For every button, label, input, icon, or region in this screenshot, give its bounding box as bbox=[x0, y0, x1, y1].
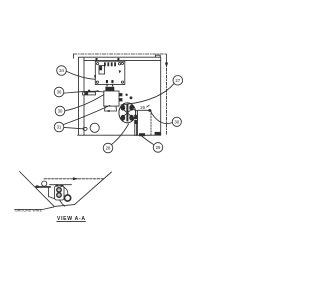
wire below switch bbox=[60, 200, 65, 206]
contactor cap bbox=[105, 87, 114, 91]
board screw top-left bbox=[97, 63, 99, 65]
label leader bottom view bbox=[15, 207, 54, 210]
grommet oval on flange bbox=[83, 127, 87, 130]
phantom section line top bbox=[74, 53, 167, 55]
plug hatch lines bbox=[121, 107, 135, 119]
wire dot A bbox=[125, 94, 127, 96]
ledge vertical bbox=[48, 188, 54, 199]
back line arrow bbox=[73, 177, 79, 180]
board screw bottom-left bbox=[96, 81, 98, 83]
leader 34 bbox=[66, 71, 95, 79]
board bottom marks bbox=[106, 80, 108, 83]
contactor skirt tick bbox=[108, 110, 110, 112]
board relay dark part bbox=[100, 66, 103, 70]
svg-text:29: 29 bbox=[156, 145, 161, 150]
callout 27 bbox=[173, 76, 183, 86]
bracket top edge bbox=[50, 184, 72, 186]
leader 30 right bbox=[151, 112, 173, 124]
capacitor bottom blob bbox=[139, 133, 145, 136]
board screw top-right bbox=[121, 62, 123, 64]
circuit board U1 bbox=[95, 61, 125, 84]
phantom line right vertical bbox=[166, 68, 168, 135]
callout 29 bbox=[153, 143, 163, 153]
standoff mark left above board bbox=[96, 58, 98, 61]
contactor K1 bbox=[104, 91, 119, 106]
callout 34 bbox=[57, 66, 67, 76]
contactor skirt bbox=[105, 106, 117, 111]
terminal strip TB1 bbox=[83, 92, 96, 95]
switch top tick left bbox=[55, 184, 58, 186]
svg-text:27: 27 bbox=[175, 78, 180, 83]
switch body S1 bbox=[55, 186, 64, 200]
basepan right diagonal bbox=[75, 172, 112, 205]
leader 30 left bbox=[65, 95, 104, 111]
basepan back dashed line bbox=[44, 178, 104, 180]
capacitor left terminal upper bbox=[134, 115, 137, 119]
leader 31 short bbox=[64, 127, 83, 128]
svg-text:30: 30 bbox=[174, 119, 179, 124]
switch eye lower bbox=[57, 193, 61, 197]
box inner top line bbox=[84, 60, 161, 62]
wire dot B bbox=[130, 96, 133, 99]
callout 30 left bbox=[55, 106, 65, 116]
svg-text:36: 36 bbox=[57, 90, 62, 95]
leader 28 bbox=[111, 124, 128, 145]
terminal strip dark blob bbox=[84, 92, 88, 94]
box top-right tab bbox=[156, 55, 161, 57]
leader 31 long arc bbox=[64, 105, 110, 124]
callout 36 bbox=[54, 87, 64, 97]
leader 29 bbox=[142, 136, 154, 145]
contactor terminal upper bbox=[119, 93, 122, 96]
capacitor C1 bbox=[138, 110, 152, 135]
plug outline re-stroke bbox=[119, 103, 136, 123]
svg-text:31: 31 bbox=[57, 125, 62, 130]
ticks below board bbox=[106, 85, 107, 87]
standoff mark right above board bbox=[117, 58, 119, 61]
terminal strip screw head bbox=[88, 90, 91, 92]
box left flange inner line bbox=[83, 58, 85, 135]
board top component row bbox=[104, 62, 116, 66]
bottom-right corner blob bbox=[155, 132, 161, 136]
board relay outline bbox=[99, 66, 105, 74]
board left edge blob bbox=[94, 75, 96, 78]
ledge lines bbox=[36, 186, 51, 187]
wires left of capacitor bbox=[135, 124, 137, 135]
ledge dark tick bbox=[36, 185, 39, 187]
phantom corner tick left bbox=[73, 54, 75, 58]
compressor plug (hatched) P1 bbox=[119, 103, 136, 123]
callout 31 bbox=[54, 122, 64, 132]
VIEW A-A : basepan left diagonal bbox=[20, 172, 55, 207]
callout 30 right bbox=[172, 117, 181, 126]
board arrow mark bbox=[119, 70, 122, 73]
svg-text:26: 26 bbox=[140, 105, 145, 110]
leader 36 bbox=[64, 91, 104, 93]
svg-text:30: 30 bbox=[58, 109, 63, 114]
hole bottom-left bbox=[90, 123, 99, 132]
wire from switch to grommet bbox=[64, 187, 68, 195]
switch eye upper bbox=[57, 188, 61, 192]
svg-text:GROUND WIRE: GROUND WIRE bbox=[15, 208, 43, 212]
label 26 arrow tick bbox=[147, 105, 149, 107]
board small circle right of row bbox=[118, 63, 120, 65]
switch top tick right bbox=[60, 185, 63, 187]
board screw bottom-right bbox=[121, 81, 123, 83]
grommet ring bbox=[65, 195, 71, 201]
svg-text:34: 34 bbox=[59, 68, 64, 73]
leader 27 bbox=[121, 83, 174, 105]
basepan bottom edge bbox=[54, 205, 74, 207]
capacitor top terminal dot bbox=[148, 109, 151, 112]
capacitor right hidden edge bbox=[150, 110, 152, 135]
svg-text:28: 28 bbox=[106, 146, 111, 151]
capacitor left terminal lower bbox=[134, 120, 137, 124]
ledge small circle bbox=[42, 181, 47, 186]
contactor terminal lower bbox=[119, 98, 122, 101]
terminal strip dashes bbox=[93, 90, 99, 93]
section arrow right bbox=[166, 54, 168, 64]
callout 28 bbox=[103, 143, 113, 153]
control box outline bbox=[78, 57, 161, 135]
wire tick near cap top bbox=[133, 110, 138, 112]
view title underline bbox=[57, 220, 86, 222]
